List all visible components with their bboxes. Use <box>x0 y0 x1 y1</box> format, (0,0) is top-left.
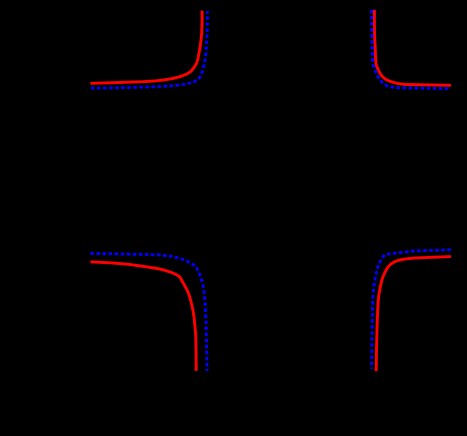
blue dashed curve, lower-right branch <box>372 250 451 369</box>
red curve, upper-left branch <box>90 11 202 84</box>
blue dashed curve, lower-left branch <box>90 253 207 371</box>
blue dashed curve, upper-right branch <box>371 10 451 89</box>
red curve, upper-right branch <box>374 10 451 85</box>
red curve, lower-right branch <box>376 257 451 372</box>
red curve, lower-left branch <box>90 262 196 371</box>
blue dashed curve, upper-left branch <box>91 11 207 88</box>
